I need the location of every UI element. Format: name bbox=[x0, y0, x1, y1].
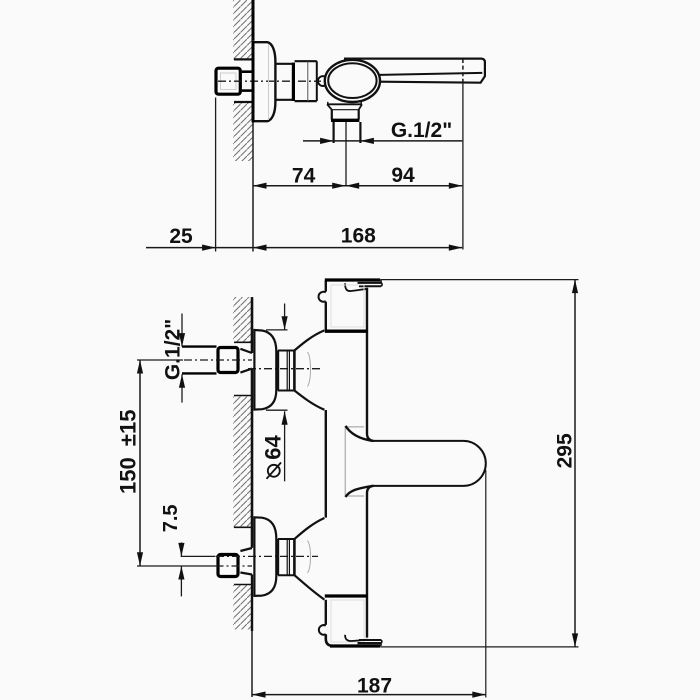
svg-text:94: 94 bbox=[391, 164, 415, 187]
svg-text:150: 150 bbox=[116, 457, 141, 494]
svg-text:±15: ±15 bbox=[116, 410, 141, 447]
svg-text:7.5: 7.5 bbox=[160, 504, 182, 532]
svg-text:G.1/2": G.1/2" bbox=[162, 319, 185, 380]
svg-text:74: 74 bbox=[292, 164, 316, 187]
svg-text:168: 168 bbox=[341, 225, 376, 248]
svg-text:187: 187 bbox=[357, 675, 392, 698]
svg-text:64: 64 bbox=[261, 435, 286, 460]
svg-text:25: 25 bbox=[169, 225, 193, 248]
svg-text:G.1/2": G.1/2" bbox=[391, 119, 452, 142]
svg-text:295: 295 bbox=[554, 433, 577, 468]
